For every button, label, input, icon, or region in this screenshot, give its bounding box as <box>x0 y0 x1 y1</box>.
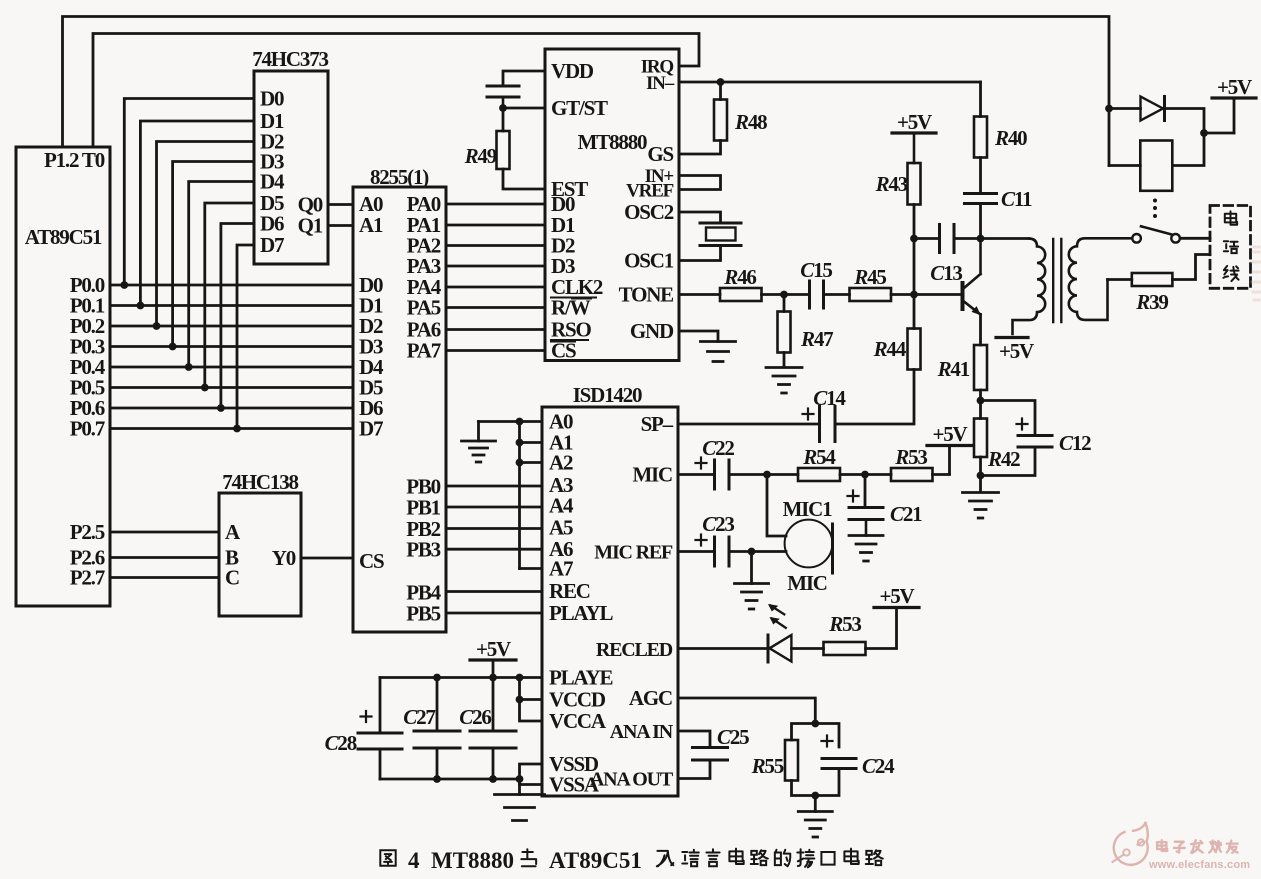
svg-text:AGC: AGC <box>629 686 672 710</box>
svg-text:R42: R42 <box>987 447 1020 471</box>
junction bus/riser <box>516 674 524 682</box>
wire R42 to ground <box>979 457 982 492</box>
wire PA4 to MT8880 <box>446 286 545 289</box>
wire transformer to R39 <box>1108 278 1132 281</box>
wire R53 to +5V <box>933 446 950 475</box>
svg-text:R48: R48 <box>734 110 767 134</box>
wire riser P0.1 to 74HC373 D1 <box>140 121 254 306</box>
svg-text:C23: C23 <box>702 512 734 536</box>
wire C12 branch top <box>981 401 1036 436</box>
junction collector node <box>977 235 985 243</box>
power +5V transformer primary <box>996 338 1034 364</box>
svg-text:CS: CS <box>359 549 384 573</box>
junction P0.7 <box>233 425 241 433</box>
ground R42 <box>963 493 999 519</box>
chip 74HC138 <box>219 470 301 616</box>
wire C14 to R44 <box>835 370 914 425</box>
junction C13 node <box>910 235 918 243</box>
LED D2 <box>768 604 791 662</box>
wire OSC2 <box>679 212 721 223</box>
svg-text:C22: C22 <box>702 436 734 460</box>
svg-text:R53: R53 <box>828 612 861 636</box>
wire ANA OUT <box>678 760 710 779</box>
wire P1.2 to relay (top rail) <box>63 17 1110 166</box>
wire riser P0.2 to 74HC373 D2 <box>157 142 255 327</box>
svg-text:Q1: Q1 <box>298 214 323 238</box>
wire ANA IN <box>678 731 710 748</box>
wire diode anode <box>1109 107 1141 110</box>
capacitor C15 <box>800 258 832 308</box>
wire MIC pin <box>678 473 715 476</box>
chip 74HC373 <box>252 47 328 264</box>
wire base node to R44 <box>913 295 916 329</box>
svg-text:www.elecfans.com: www.elecfans.com <box>1148 859 1250 871</box>
svg-text:PB3: PB3 <box>406 538 440 562</box>
wire diode cathode <box>1165 109 1205 166</box>
svg-text:AT89C51: AT89C51 <box>549 848 642 873</box>
capacitor C27 <box>403 678 460 780</box>
svg-text:R44: R44 <box>873 337 907 361</box>
svg-text:OSC1: OSC1 <box>624 249 674 273</box>
junction GT/ST <box>499 104 507 112</box>
wire riser P0.6 to 74HC373 D6 <box>221 224 254 409</box>
ground MIC REF <box>735 552 769 610</box>
wire relay left <box>1109 164 1140 167</box>
svg-text:OSC2: OSC2 <box>624 200 674 224</box>
resistor R42 <box>974 401 1020 472</box>
wire riser P0.0 to 74HC373 D0 <box>124 99 254 286</box>
wire R55/C24 bottom <box>792 769 840 796</box>
wire base node riser <box>913 205 916 295</box>
svg-text:SP–: SP– <box>641 412 674 436</box>
wire Q0 to A0 <box>328 203 353 206</box>
junction P0.1 <box>137 302 145 310</box>
junction C27 bottom <box>433 775 441 783</box>
resistor R44 <box>873 329 921 370</box>
wire PA6 to MT8880 <box>446 328 545 331</box>
wire PA0 to MT8880 <box>446 203 545 206</box>
capacitor C13 <box>930 225 962 286</box>
wire VSSD/VSSA riser <box>520 764 543 785</box>
wire P0.4 to 8255 D4 <box>110 366 353 369</box>
capacitor C23 <box>696 512 735 566</box>
wire R48 to GS <box>679 141 721 155</box>
svg-text:VCCD: VCCD <box>549 688 606 712</box>
svg-text:VREF: VREF <box>626 181 674 202</box>
crystal X1 <box>700 223 741 246</box>
junction P0.2 <box>153 322 161 330</box>
svg-text:R41: R41 <box>937 357 970 381</box>
capacitor C14 <box>803 386 847 442</box>
wire PLAYE bus <box>380 676 542 679</box>
wire P0.0 to 8255 D0 <box>110 284 353 287</box>
wire P2.7 to C <box>110 576 219 579</box>
svg-text:IN–: IN– <box>646 73 675 94</box>
svg-text:D6: D6 <box>260 212 284 236</box>
wire IN- node <box>679 81 981 84</box>
junction A2 <box>516 459 524 467</box>
power +5V MIC <box>927 422 972 446</box>
capacitor C22 <box>696 436 735 489</box>
svg-text:R46: R46 <box>723 265 756 289</box>
junction C27 top <box>433 674 441 682</box>
node phone line box <box>1210 206 1251 289</box>
svg-text:74HC138: 74HC138 <box>222 470 298 494</box>
svg-text:R55: R55 <box>751 754 784 778</box>
wire collector node to primary <box>981 237 1030 240</box>
wire P0.7 to 8255 D7 <box>110 427 353 430</box>
svg-text:+5V: +5V <box>879 584 914 608</box>
wire C13 row <box>914 237 981 240</box>
capacitor C21 <box>848 475 923 536</box>
svg-text:C12: C12 <box>1059 431 1091 455</box>
wire R53 to +5V <box>866 608 897 649</box>
wire GND <box>679 331 718 342</box>
wire MIC node to microphone <box>767 475 786 537</box>
wire MIC REF <box>678 550 715 553</box>
wire R55/C24 top <box>792 724 840 748</box>
wire P0.6 to 8255 D6 <box>110 407 353 410</box>
wire riser P0.3 to 74HC373 D3 <box>173 162 254 347</box>
svg-text:C21: C21 <box>890 502 922 526</box>
wire riser P0.4 to 74HC373 D4 <box>189 182 254 368</box>
capacitor C11 <box>965 187 1032 211</box>
svg-text:A1: A1 <box>359 213 383 237</box>
ground MT8880 <box>701 342 736 362</box>
svg-text:C27: C27 <box>403 705 435 729</box>
wire IN- to R40 <box>979 82 982 117</box>
capacitor C12 <box>1017 419 1092 456</box>
wire A0 row <box>479 420 543 423</box>
chip AT89C51 <box>16 147 110 606</box>
wire PA2 to MT8880 <box>446 244 545 247</box>
svg-text:C25: C25 <box>717 725 749 749</box>
svg-text:74HC373: 74HC373 <box>252 47 328 71</box>
svg-text:PB5: PB5 <box>406 602 440 626</box>
wire R40 to C11 <box>979 158 982 194</box>
wire VDD <box>503 71 545 86</box>
svg-text:MIC REF: MIC REF <box>594 542 673 564</box>
power +5V bottom <box>470 637 516 678</box>
wire emitter to R41 <box>979 315 982 346</box>
wire GT/ST <box>503 107 545 110</box>
wire C15 to R45 <box>824 293 850 296</box>
transformer T1 <box>1013 238 1133 334</box>
svg-text:RECLED: RECLED <box>596 639 673 661</box>
chip MT8880 <box>545 49 679 363</box>
wire P2.6 to B <box>110 556 219 559</box>
chip 8255(1) <box>353 165 446 632</box>
svg-text:PLAYE: PLAYE <box>549 666 612 690</box>
wire PB0 to A3 <box>446 485 542 488</box>
svg-text:C11: C11 <box>1001 187 1032 211</box>
svg-text:C: C <box>225 566 239 590</box>
svg-text:PB1: PB1 <box>406 496 440 520</box>
wire C23 to microphone <box>729 550 786 553</box>
svg-text:Y0: Y0 <box>272 546 296 570</box>
svg-text:GT/ST: GT/ST <box>551 96 608 120</box>
junction IN- <box>717 78 725 86</box>
svg-text:D7: D7 <box>260 233 284 257</box>
svg-text:R39: R39 <box>1135 290 1168 314</box>
wire switch to phone box <box>1180 237 1210 240</box>
svg-text:+5V: +5V <box>897 110 932 134</box>
junction P0.5 <box>201 384 209 392</box>
svg-text:A2: A2 <box>549 451 573 475</box>
resistor R45 <box>850 265 892 301</box>
junction +5V tap <box>1200 129 1208 137</box>
junction C26 bottom <box>489 775 497 783</box>
junction ground bus <box>516 775 524 783</box>
wire PA3 to MT8880 <box>446 265 545 268</box>
junction C21 node <box>861 471 869 479</box>
svg-text:R43: R43 <box>875 172 908 196</box>
svg-text:R49: R49 <box>464 144 497 168</box>
resistor R46 <box>720 265 762 301</box>
wire PA1 to MT8880 <box>446 224 545 227</box>
resistor R41 <box>937 345 987 390</box>
svg-text:MT8880: MT8880 <box>431 848 514 873</box>
wire R47 to ground <box>783 353 786 368</box>
junction P0.6 <box>217 404 225 412</box>
wire PB2 to A5 <box>446 527 542 530</box>
wire C12 branch bottom <box>981 447 1036 476</box>
wire riser P0.7 to 74HC373 D7 <box>237 245 254 429</box>
wire AGC <box>678 698 815 724</box>
wire PB3 to A6 <box>446 548 542 551</box>
wire PB5 to PLAYL <box>446 612 542 615</box>
capacitor C24 <box>822 736 896 779</box>
svg-text:8255(1): 8255(1) <box>370 165 429 189</box>
ground R55/C24 <box>798 796 832 838</box>
svg-text:A5: A5 <box>549 516 573 540</box>
wire ground bus <box>380 778 520 781</box>
wire TONE <box>679 293 720 296</box>
power +5V RECLED <box>874 584 919 608</box>
wire LED to R53 <box>791 647 823 650</box>
svg-text:+5V: +5V <box>476 637 511 661</box>
wire OSC1 <box>679 246 721 261</box>
wire riser P0.5 to 74HC373 D5 <box>205 203 254 388</box>
junction A0 <box>516 418 524 426</box>
wire R46 to C15 <box>762 293 810 296</box>
svg-text:REC: REC <box>549 579 590 603</box>
power +5V R43 <box>892 110 936 163</box>
wire SP- <box>678 423 820 426</box>
svg-text:P2.7: P2.7 <box>70 566 105 590</box>
svg-text:ISD1420: ISD1420 <box>573 383 642 407</box>
svg-text:4: 4 <box>408 848 420 873</box>
svg-text:C26: C26 <box>459 705 491 729</box>
wire P0.1 to 8255 D1 <box>110 304 353 307</box>
resistor R53 lower <box>824 612 866 655</box>
wire Q1 to A1 <box>328 224 353 227</box>
svg-text:VCCA: VCCA <box>549 709 607 733</box>
wire R39 right to phone box <box>1172 255 1210 280</box>
junction diode branch <box>1105 105 1113 113</box>
svg-text:D7: D7 <box>359 417 383 441</box>
svg-text:VDD: VDD <box>551 59 594 83</box>
svg-text:R47: R47 <box>800 327 833 351</box>
ground A-bus <box>462 422 496 463</box>
wire R45 to base node <box>891 293 961 296</box>
resistor R55 <box>751 740 798 781</box>
wire PA7 to MT8880 <box>446 349 545 352</box>
svg-text:R53: R53 <box>894 445 927 469</box>
svg-text:GND: GND <box>630 319 674 343</box>
junction TONE node <box>780 291 788 299</box>
power +5V relay <box>1204 75 1256 133</box>
svg-text:P2.5: P2.5 <box>70 520 105 544</box>
junction R42/C12 bottom <box>977 472 985 480</box>
svg-text:+5V: +5V <box>932 422 967 446</box>
microphone MIC1 <box>783 497 833 595</box>
resistor R40 <box>974 117 1027 158</box>
svg-text:MIC1: MIC1 <box>783 497 833 521</box>
wire R49 to EST <box>503 169 545 189</box>
wire VCCD/VCCA riser <box>520 678 543 722</box>
wire A bus riser <box>520 422 543 569</box>
resistor R54 <box>798 445 840 481</box>
svg-text:AT89C51: AT89C51 <box>25 225 102 249</box>
resistor R43 <box>875 163 921 205</box>
svg-text:C14: C14 <box>813 386 846 410</box>
junction A1 <box>516 439 524 447</box>
wire R54 to R53 <box>840 473 891 476</box>
junction P0.0 <box>120 281 128 289</box>
svg-text:P0.7: P0.7 <box>70 417 105 441</box>
capacitor C28 <box>325 678 402 780</box>
wire C11 to collector node <box>979 204 982 239</box>
diode D1 <box>1141 97 1165 121</box>
svg-text:R54: R54 <box>802 445 836 469</box>
ground VSS <box>495 785 545 821</box>
svg-text:C13: C13 <box>930 261 962 285</box>
junction bus/+5V <box>489 674 497 682</box>
transistor Q1 <box>961 239 981 316</box>
resistor R53 upper <box>891 445 933 481</box>
resistor R48 <box>714 82 767 141</box>
junction base node <box>910 291 918 299</box>
svg-text:D4: D4 <box>260 170 285 194</box>
wire PB1 to A4 <box>446 506 542 509</box>
svg-text:A4: A4 <box>549 494 574 518</box>
svg-text:R40: R40 <box>994 126 1027 150</box>
capacitor C25 <box>693 725 750 760</box>
svg-text:+5V: +5V <box>1217 75 1252 99</box>
svg-text:A7: A7 <box>549 557 573 581</box>
svg-text:C28: C28 <box>325 731 357 755</box>
ground R47 <box>766 368 802 394</box>
wire R41 to node <box>979 390 982 401</box>
ground C21 <box>849 536 883 562</box>
switch S1 <box>1132 226 1180 242</box>
junction MIC node <box>763 471 771 479</box>
junction ground node <box>811 792 819 800</box>
caption figure title <box>380 848 883 873</box>
wire P2.5 to A <box>110 531 219 534</box>
svg-text:PLAYL: PLAYL <box>549 601 613 625</box>
svg-text:MT8880: MT8880 <box>578 130 647 154</box>
svg-text:C24: C24 <box>862 754 895 778</box>
svg-text:A: A <box>225 520 241 544</box>
resistor R49 <box>464 108 510 169</box>
svg-text:P1.2 T0: P1.2 T0 <box>44 148 105 172</box>
wire C22 to R54 <box>729 473 798 476</box>
svg-text:ANA OUT: ANA OUT <box>590 769 674 791</box>
junction R41/R42 <box>977 397 985 405</box>
svg-text:ANA IN: ANA IN <box>610 721 674 743</box>
junction MIC REF node <box>748 548 756 556</box>
svg-text:PA7: PA7 <box>407 339 441 363</box>
wire P0.5 to 8255 D5 <box>110 386 353 389</box>
wire PB4 to REC <box>446 590 542 593</box>
resistor R47 <box>778 295 834 353</box>
svg-text:TONE: TONE <box>619 283 674 307</box>
wire IN+ VREF loop <box>679 176 721 190</box>
svg-text:R45: R45 <box>853 265 886 289</box>
svg-text:GS: GS <box>647 142 673 166</box>
junction VCCD <box>516 696 524 704</box>
svg-text:C15: C15 <box>800 258 832 282</box>
relay linkage dots <box>1153 199 1157 219</box>
junction AGC node <box>811 720 819 728</box>
chip ISD1420 <box>542 383 678 797</box>
svg-text:PA5: PA5 <box>407 296 441 320</box>
capacitor VDD bypass <box>487 86 519 108</box>
svg-text:D0: D0 <box>260 87 284 111</box>
svg-text:+5V: +5V <box>999 339 1034 363</box>
svg-text:MIC: MIC <box>632 463 672 487</box>
wire P0.2 to 8255 D2 <box>110 325 353 328</box>
relay K1 coil <box>1140 141 1172 191</box>
junction P0.3 <box>169 343 177 351</box>
svg-text:MIC: MIC <box>787 571 827 595</box>
junction P0.4 <box>185 363 193 371</box>
capacitor C26 <box>459 678 516 780</box>
wire P0.3 to 8255 D3 <box>110 345 353 348</box>
wire RECLED <box>678 647 768 650</box>
wire Y0 to 8255 CS <box>301 557 353 560</box>
resistor R39 <box>1132 273 1173 314</box>
wire PA5 to MT8880 <box>446 306 545 309</box>
wire T0 to IRQ <box>93 34 699 148</box>
